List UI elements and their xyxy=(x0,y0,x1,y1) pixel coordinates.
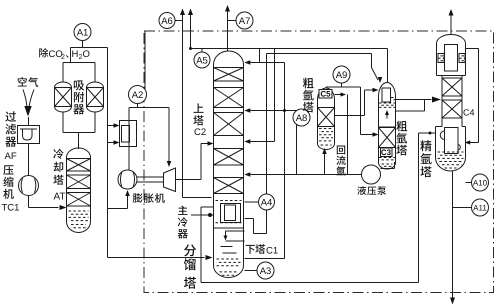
svg-text:C3: C3 xyxy=(381,148,392,157)
svg-text:C1: C1 xyxy=(266,246,278,257)
svg-text:C4: C4 xyxy=(463,108,475,118)
svg-text:H: H xyxy=(72,49,79,60)
svg-text:O: O xyxy=(83,49,90,60)
svg-text:A9: A9 xyxy=(336,70,348,81)
svg-text:AT: AT xyxy=(54,192,66,203)
svg-text:C2: C2 xyxy=(194,127,206,138)
svg-text:AF: AF xyxy=(5,151,17,162)
svg-text:TC1: TC1 xyxy=(2,203,20,214)
svg-text:A11: A11 xyxy=(473,203,487,212)
svg-text:C5: C5 xyxy=(320,90,331,99)
svg-text:A7: A7 xyxy=(239,16,251,27)
svg-text:2: 2 xyxy=(61,54,65,61)
svg-text:A3: A3 xyxy=(260,266,272,277)
svg-text:A2: A2 xyxy=(132,90,144,101)
svg-text:A1: A1 xyxy=(77,27,89,38)
svg-text:A8: A8 xyxy=(296,113,308,124)
svg-text:A6: A6 xyxy=(161,16,173,27)
svg-text:A5: A5 xyxy=(196,55,208,66)
svg-text:A10: A10 xyxy=(473,178,488,187)
svg-text:A4: A4 xyxy=(261,197,273,208)
